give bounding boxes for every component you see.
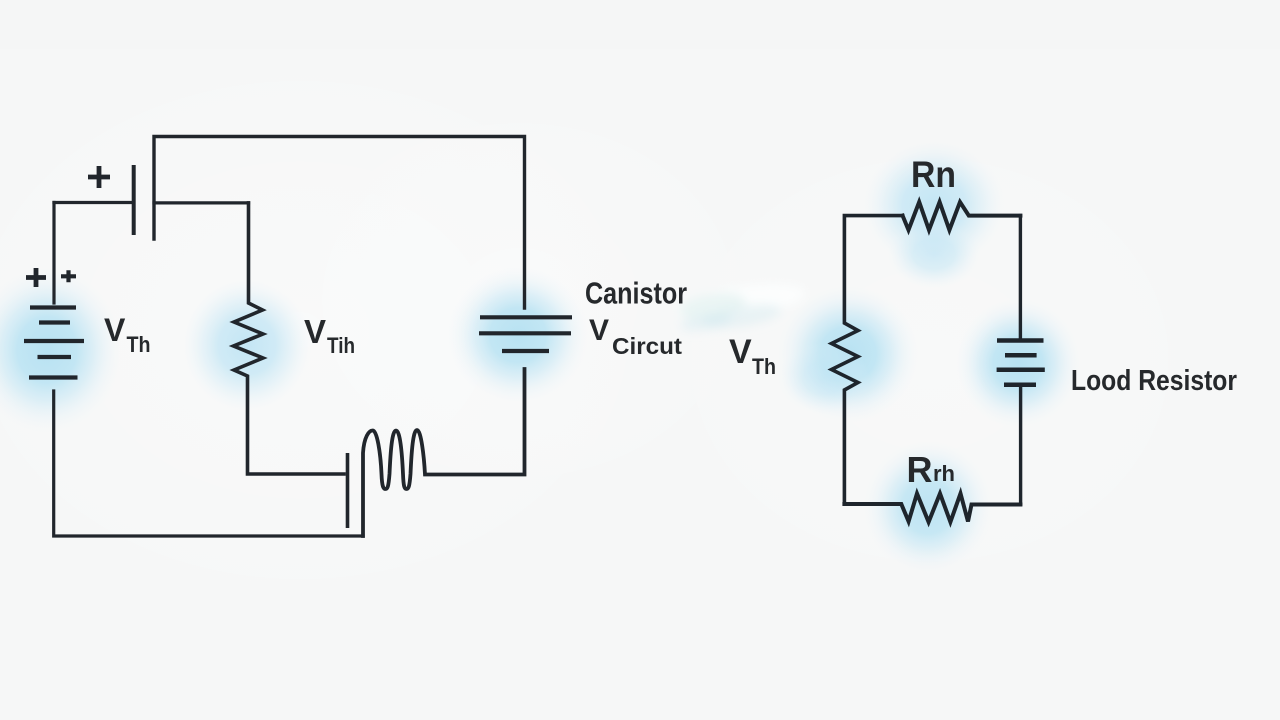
svg-text:V: V <box>104 312 126 348</box>
svg-text:Lood Resistor: Lood Resistor <box>1071 365 1237 397</box>
svg-text:Circut: Circut <box>612 333 682 359</box>
svg-text:V: V <box>304 313 326 350</box>
svg-text:Tih: Tih <box>327 333 355 358</box>
svg-text:rh: rh <box>933 461 955 486</box>
svg-text:V: V <box>589 314 609 347</box>
svg-text:Canistor: Canistor <box>585 276 687 311</box>
svg-text:Rn: Rn <box>911 154 956 195</box>
svg-text:Th: Th <box>752 354 776 379</box>
svg-text:Th: Th <box>127 332 151 357</box>
svg-text:V: V <box>729 333 752 371</box>
svg-text:R: R <box>907 449 933 490</box>
